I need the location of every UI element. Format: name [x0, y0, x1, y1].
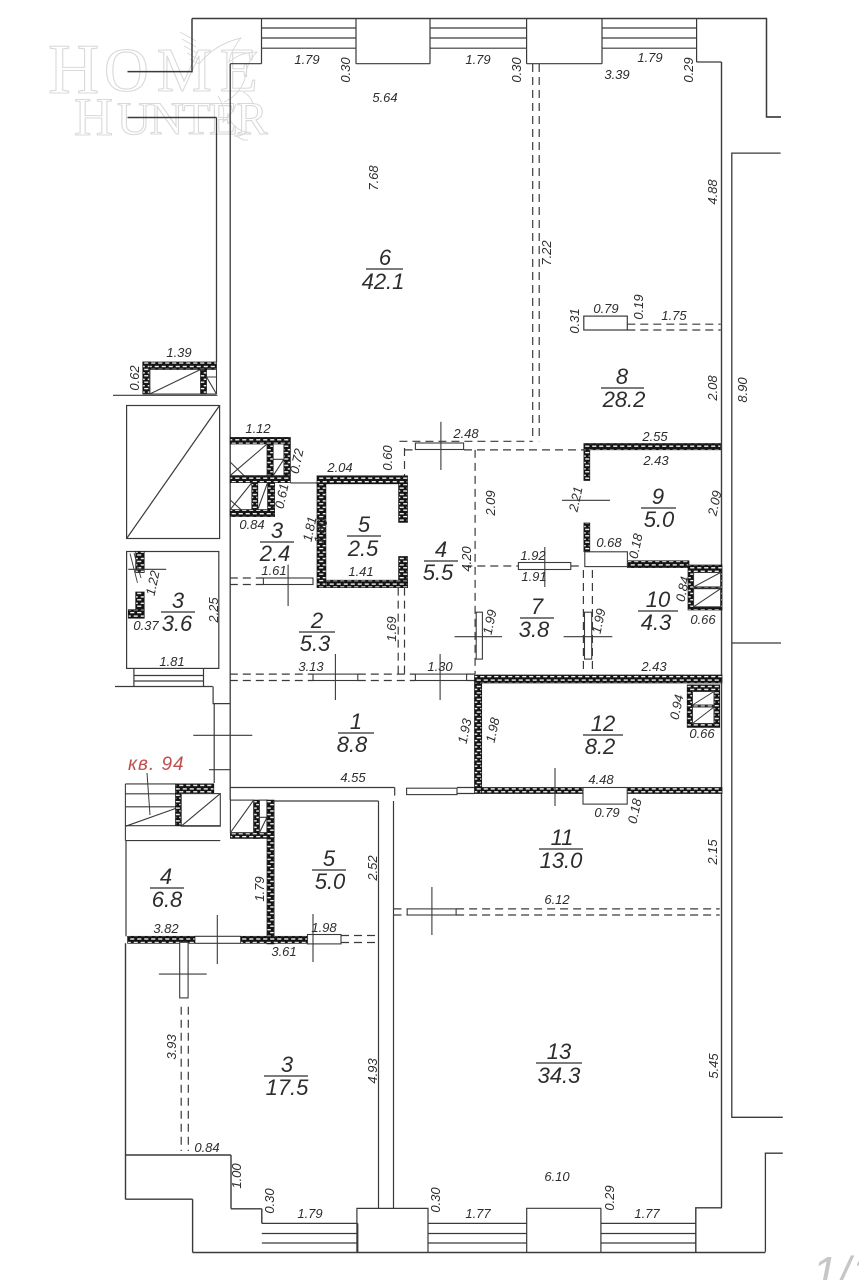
svg-text:1.91: 1.91	[521, 569, 546, 584]
svg-text:3: 3	[271, 518, 284, 543]
svg-text:4.20: 4.20	[459, 546, 474, 572]
room 3 (3.6) walls	[127, 552, 219, 669]
svg-text:1.12: 1.12	[245, 421, 271, 436]
svg-text:1.79: 1.79	[252, 876, 267, 901]
svg-text:1.92: 1.92	[520, 548, 546, 563]
room 3 (17.5) label	[264, 1052, 309, 1100]
apartment right wall	[721, 62, 723, 1208]
big shaft box with diagonal (loggia)	[127, 406, 220, 539]
entry door leaf	[159, 942, 207, 998]
svg-text:3.6: 3.6	[162, 611, 193, 636]
svg-text:42.1: 42.1	[362, 269, 405, 294]
svg-text:1.79: 1.79	[637, 50, 662, 65]
svg-text:3.93: 3.93	[164, 1034, 179, 1060]
svg-text:кв. 94: кв. 94	[128, 754, 185, 775]
svg-text:2.55: 2.55	[641, 429, 668, 444]
svg-text:4.88: 4.88	[705, 179, 720, 205]
svg-text:3.61: 3.61	[271, 944, 296, 959]
stairwell wall stub	[209, 687, 230, 784]
room 5 (5.0) thin walls	[274, 801, 394, 1209]
svg-text:6.12: 6.12	[544, 892, 570, 907]
svg-text:0.19: 0.19	[631, 294, 646, 319]
dashed lines 2.48 level	[399, 441, 584, 450]
room 1 bottom wall line	[230, 788, 475, 796]
svg-text:8.2: 8.2	[585, 734, 616, 759]
svg-text:1.61: 1.61	[261, 563, 286, 578]
dashed wall room2/room4	[398, 448, 475, 674]
dashed old wall between room6 and room8	[533, 64, 540, 441]
left balcony window below room 3 (3.6)	[115, 668, 213, 686]
dashed corridor line 3.13 / 1.30	[230, 674, 475, 680]
svg-text:11: 11	[551, 825, 574, 850]
svg-text:10: 10	[646, 587, 671, 612]
room 9 door swing tick	[562, 499, 610, 501]
svg-text:5.45: 5.45	[706, 1053, 721, 1079]
neighbour building outline right	[732, 117, 783, 1252]
svg-text:1.79: 1.79	[297, 1206, 322, 1221]
svg-text:3.82: 3.82	[153, 921, 179, 936]
svg-text:28.2: 28.2	[602, 387, 646, 412]
room 4 (6.8) label	[150, 864, 184, 912]
svg-text:0.30: 0.30	[509, 57, 524, 83]
svg-text:7.22: 7.22	[539, 240, 554, 266]
column rect in room 8	[584, 316, 628, 330]
svg-text:1.41: 1.41	[348, 564, 373, 579]
window W3 top (1.79)	[602, 19, 697, 49]
room 12 label	[583, 711, 623, 759]
svg-text:2.43: 2.43	[640, 659, 667, 674]
svg-text:4.55: 4.55	[340, 770, 366, 785]
svg-text:0.31: 0.31	[567, 308, 582, 333]
svg-text:5: 5	[358, 512, 371, 537]
top exterior wall outer line	[192, 19, 781, 118]
room 9 label	[641, 484, 676, 532]
svg-text:2.48: 2.48	[452, 426, 479, 441]
opening bar 3.13	[298, 654, 357, 700]
svg-text:0.60: 0.60	[380, 445, 395, 471]
room 7 label	[519, 594, 554, 642]
dim 4.48 tick	[554, 768, 556, 806]
svg-text:1.75: 1.75	[661, 308, 687, 323]
wall unit 0.84 hatched lower	[230, 483, 274, 517]
svg-text:0.66: 0.66	[690, 612, 716, 627]
svg-text:1.39: 1.39	[166, 345, 191, 360]
door leaf room 7 left with swing tick	[455, 612, 503, 659]
svg-text:13: 13	[547, 1039, 572, 1064]
svg-text:3.13: 3.13	[298, 659, 324, 674]
connection line to room 5 (2.5)	[290, 482, 317, 484]
room 5 (5.0) label	[312, 846, 346, 894]
opening bar 1.30	[415, 654, 466, 700]
bottom pier block 2	[527, 1208, 601, 1252]
svg-text:1.77: 1.77	[634, 1206, 660, 1221]
svg-text:H: H	[74, 87, 112, 147]
svg-text:9: 9	[652, 484, 664, 509]
svg-text:1.30: 1.30	[427, 659, 453, 674]
bottom window B1 (1.79)	[262, 1223, 358, 1252]
svg-text:7.68: 7.68	[366, 165, 381, 191]
leader line room 1	[193, 734, 252, 736]
svg-text:12: 12	[591, 711, 615, 736]
room 1 label	[337, 709, 374, 757]
svg-text:2.43: 2.43	[642, 453, 669, 468]
svg-text:1.81: 1.81	[159, 654, 184, 669]
svg-text:2: 2	[310, 608, 323, 633]
wall room4/room5 hatched	[267, 800, 274, 944]
room 9 threshold bar 0.68	[585, 552, 628, 567]
left lower exterior wall	[125, 943, 261, 1252]
watermark eagle sketch	[180, 32, 257, 140]
svg-text:0.68: 0.68	[596, 535, 622, 550]
svg-text:5.64: 5.64	[372, 90, 397, 105]
svg-text:2.08: 2.08	[705, 375, 720, 402]
svg-text:4.48: 4.48	[588, 772, 614, 787]
svg-text:17.5: 17.5	[266, 1075, 310, 1100]
svg-text:7: 7	[531, 594, 544, 619]
svg-text:8: 8	[616, 364, 629, 389]
room 8 label	[601, 364, 645, 412]
svg-text:8.8: 8.8	[337, 732, 368, 757]
room 3 (2.4) label	[259, 518, 294, 566]
svg-text:13.0: 13.0	[540, 848, 584, 873]
bottom window B2 (1.77)	[428, 1223, 527, 1243]
dashed 3.93 line	[181, 1007, 188, 1151]
balcony box 1.39 hatched	[143, 362, 217, 394]
pier between W1 and W2	[356, 48, 430, 64]
dashed wall segment right of 1.98	[341, 936, 379, 943]
opening bar 6.12	[407, 887, 570, 935]
svg-text:0.79: 0.79	[593, 301, 618, 316]
svg-text:8.90: 8.90	[735, 377, 750, 403]
stair flight	[125, 784, 220, 841]
svg-text:0.30: 0.30	[428, 1187, 443, 1213]
dim 3.82/3.61 tick	[216, 915, 218, 964]
svg-text:0.29: 0.29	[602, 1185, 617, 1210]
opening bar 2.48	[415, 422, 463, 470]
threshold bar 0.79 room 12	[583, 788, 627, 805]
dashed wall room7/room10	[583, 570, 592, 674]
svg-text:4.93: 4.93	[365, 1058, 380, 1084]
svg-text:6.10: 6.10	[544, 1169, 570, 1184]
svg-text:1/1: 1/1	[812, 1247, 859, 1280]
wardrobe hatched near entry	[176, 784, 221, 826]
bottom window B3 (1.77)	[601, 1223, 696, 1243]
svg-text:0.84: 0.84	[194, 1140, 219, 1155]
svg-text:1.00: 1.00	[229, 1163, 244, 1189]
svg-text:1.79: 1.79	[465, 52, 490, 67]
top wall inner face segments	[230, 48, 721, 64]
closet hatched room 4 top	[230, 800, 274, 838]
bottom wall rooms 4/5 hatched	[128, 936, 308, 943]
svg-text:2.04: 2.04	[326, 460, 352, 475]
svg-text:1.79: 1.79	[294, 52, 319, 67]
top-left wall corner and stubs	[128, 19, 217, 118]
window W2 top (1.79)	[430, 19, 527, 49]
window W1 top (1.79)	[262, 19, 357, 49]
kv 94 leader line	[147, 773, 150, 815]
svg-text:6: 6	[379, 245, 392, 270]
room 3 (3.6) label	[161, 588, 195, 636]
dim 1.61 with opening bar	[230, 563, 313, 606]
svg-text:34.3: 34.3	[538, 1063, 582, 1088]
opening bar 1.98	[308, 914, 342, 962]
svg-text:0.62: 0.62	[127, 365, 142, 391]
svg-text:4.3: 4.3	[641, 610, 672, 635]
svg-text:1.69: 1.69	[384, 616, 399, 641]
room 10 label	[638, 587, 678, 635]
pier between W2 and W3	[527, 48, 602, 64]
bottom exterior wall outer line	[193, 1252, 766, 1254]
svg-text:3.39: 3.39	[604, 67, 629, 82]
svg-text:5.0: 5.0	[644, 507, 675, 532]
watermark Home Hunter logo	[48, 31, 268, 147]
svg-text:4: 4	[435, 537, 447, 562]
svg-text:1.98: 1.98	[311, 920, 337, 935]
room 6 label	[362, 245, 405, 294]
svg-text:4: 4	[160, 864, 172, 889]
svg-text:5.3: 5.3	[300, 631, 331, 656]
svg-text:2.25: 2.25	[206, 597, 221, 624]
left interior corridor walls	[217, 64, 231, 800]
svg-text:3.8: 3.8	[519, 617, 550, 642]
svg-text:5: 5	[323, 846, 336, 871]
plumbing wall pieces in room 3 (3.6)	[128, 552, 166, 619]
svg-text:6.8: 6.8	[152, 887, 183, 912]
room 13 label	[536, 1039, 582, 1088]
svg-text:0.66: 0.66	[689, 726, 715, 741]
bottom right wall step	[696, 1208, 722, 1253]
svg-text:2.09: 2.09	[483, 490, 498, 516]
room 2 label	[299, 608, 335, 656]
room 5 (2.5) label	[347, 512, 381, 561]
svg-text:5.0: 5.0	[315, 869, 346, 894]
svg-text:5.5: 5.5	[423, 560, 454, 585]
dashed 6.12 line	[394, 909, 720, 915]
svg-text:0.37: 0.37	[133, 618, 159, 633]
dashed 1.75 line	[627, 324, 720, 330]
svg-text:2.52: 2.52	[365, 855, 380, 882]
svg-text:0.29: 0.29	[681, 57, 696, 82]
svg-text:2.15: 2.15	[705, 839, 720, 866]
bottom pier block 1	[357, 1208, 428, 1252]
opening 1.92 assembly	[464, 547, 583, 587]
room 12 hatched walls	[475, 675, 723, 794]
door leaf room 10 with swing tick	[564, 612, 613, 659]
wall unit 1.12 hatched (bathroom block)	[230, 437, 290, 482]
room 4 (6.8) left wall	[125, 841, 127, 937]
svg-text:2.5: 2.5	[347, 536, 379, 561]
room 11 label	[539, 825, 583, 873]
room 4 (5.5) label	[423, 537, 458, 585]
svg-text:UNTER: UNTER	[117, 93, 268, 145]
svg-text:0.79: 0.79	[594, 805, 619, 820]
svg-text:3: 3	[172, 588, 185, 613]
svg-text:0.30: 0.30	[338, 57, 353, 83]
svg-text:0.30: 0.30	[262, 1188, 277, 1214]
ledge line below balcony box	[113, 394, 218, 396]
svg-text:3: 3	[281, 1052, 294, 1077]
svg-text:1.77: 1.77	[465, 1206, 491, 1221]
opening bar 0.79 room1/11	[407, 788, 457, 794]
vent shaft B hatched	[687, 685, 720, 728]
room 5 (2.5) hatched walls	[317, 476, 408, 588]
svg-text:1: 1	[350, 709, 362, 734]
vent shaft A hatched	[688, 565, 722, 610]
svg-text:0.84: 0.84	[239, 517, 264, 532]
room 9 hatched walls	[584, 444, 721, 568]
